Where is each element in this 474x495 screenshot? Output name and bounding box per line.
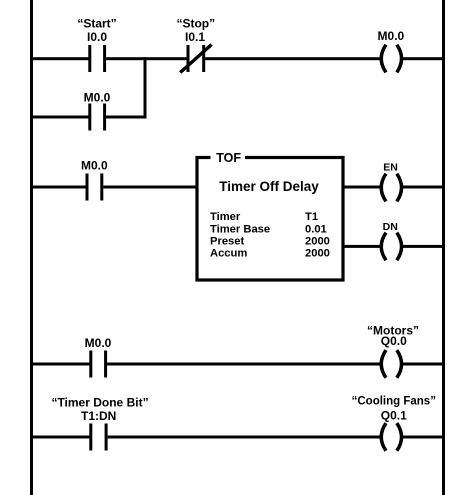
wire rung1 left segment [31, 57, 90, 60]
wire rung2 to timer box [103, 186, 196, 189]
timer block TOF T1 [197, 150, 343, 280]
svg-text:Timer: Timer [210, 211, 241, 223]
contact I0.0 "Start" (NO) [88, 45, 106, 72]
svg-text:“Cooling Fans”: “Cooling Fans” [352, 396, 436, 408]
wire rung4 middle segment [108, 436, 383, 439]
contact M0.0 rung2 [86, 174, 104, 201]
coil Q0.0 Motors [381, 350, 401, 378]
svg-text:2000: 2000 [305, 248, 330, 260]
contact M0.0 seal-in [88, 104, 106, 131]
svg-text:Preset: Preset [210, 235, 244, 247]
wire rung4 left segment [31, 436, 90, 439]
wire DN coil to right rail [401, 245, 443, 248]
wire parallel branch horizontal [31, 116, 90, 119]
svg-text:“Timer Done Bit”: “Timer Done Bit” [51, 396, 148, 410]
svg-text:M0.0: M0.0 [81, 159, 108, 173]
coil DN [381, 233, 401, 261]
svg-text:M0.0: M0.0 [85, 336, 112, 350]
svg-text:M0.0: M0.0 [84, 91, 111, 105]
svg-text:T1:DN: T1:DN [81, 409, 116, 423]
svg-text:2000: 2000 [305, 235, 330, 247]
svg-text:“Stop”: “Stop” [176, 17, 215, 31]
wire EN coil to right rail [401, 186, 443, 189]
wire rung3 middle segment [107, 363, 382, 366]
svg-text:Timer Base: Timer Base [210, 223, 270, 235]
svg-text:Accum: Accum [210, 248, 247, 260]
svg-text:“Start”: “Start” [77, 17, 116, 31]
left power rail [30, 0, 33, 495]
wire rung3 to right rail [401, 363, 443, 366]
svg-text:I0.1: I0.1 [185, 30, 205, 44]
wire rung1 middle segment [106, 57, 186, 60]
right power rail [442, 0, 445, 495]
svg-text:0.01: 0.01 [305, 223, 327, 235]
wire box to DN coil [343, 245, 382, 248]
svg-text:TOF: TOF [216, 151, 241, 165]
contact T1:DN [89, 424, 107, 451]
wire branch junction vertical [144, 57, 147, 118]
wire rung4 to right rail [401, 436, 443, 439]
svg-text:I0.0: I0.0 [87, 30, 107, 44]
contact M0.0 rung3 [89, 351, 107, 378]
wire rung3 left segment [31, 363, 90, 366]
svg-text:Q0.0: Q0.0 [381, 334, 407, 348]
wire rung2 left segment [31, 186, 86, 189]
svg-text:DN: DN [383, 221, 398, 233]
wire branch to junction [106, 116, 146, 119]
svg-text:T1: T1 [305, 211, 318, 223]
coil Q0.1 Cooling Fans [381, 423, 401, 451]
svg-text:Q0.1: Q0.1 [381, 408, 407, 422]
svg-text:EN: EN [383, 162, 398, 174]
svg-text:Timer Off Delay: Timer Off Delay [219, 179, 319, 194]
coil EN [381, 174, 401, 202]
svg-text:M0.0: M0.0 [378, 29, 405, 43]
coil M0.0 [381, 45, 401, 73]
contact I0.1 "Stop" (NC) [180, 45, 211, 73]
wire rung1 right segment [205, 57, 382, 60]
wire box to EN coil [343, 186, 382, 189]
wire rung1 to right rail [401, 57, 443, 60]
